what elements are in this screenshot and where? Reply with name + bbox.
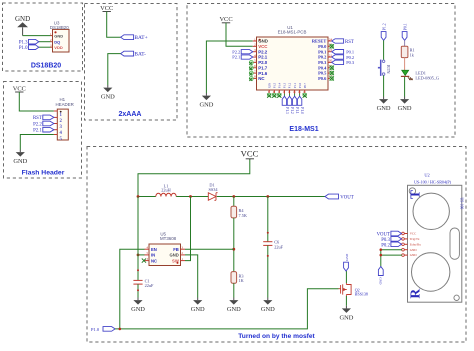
svg-text:P2.1: P2.1 xyxy=(258,55,268,60)
svg-text:15: 15 xyxy=(298,91,301,94)
svg-text:22uH: 22uH xyxy=(161,188,171,193)
svg-text:P0.2: P0.2 xyxy=(346,55,354,60)
svg-text:13: 13 xyxy=(288,91,291,94)
svg-text:U2: U2 xyxy=(424,173,429,178)
svg-text:GND: GND xyxy=(258,39,268,44)
svg-text:VCC: VCC xyxy=(241,149,259,159)
svg-text:1K: 1K xyxy=(239,278,245,283)
svg-text:P1.3: P1.3 xyxy=(283,82,287,88)
svg-text:EN: EN xyxy=(151,247,157,252)
svg-text:Echo/Rx: Echo/Rx xyxy=(410,242,422,246)
svg-text:DS18B20: DS18B20 xyxy=(50,25,69,30)
svg-text:P1.3: P1.3 xyxy=(285,107,289,114)
svg-text:P2.0: P2.0 xyxy=(258,60,268,65)
svg-text:P1.0: P1.0 xyxy=(298,82,302,88)
svg-text:E18-MS1: E18-MS1 xyxy=(289,126,318,133)
svg-text:GND: GND xyxy=(15,15,30,23)
svg-text:FB: FB xyxy=(173,247,179,252)
svg-text:P1.3: P1.3 xyxy=(19,41,28,46)
svg-text:P0.2: P0.2 xyxy=(318,55,326,60)
svg-text:GND: GND xyxy=(169,253,178,258)
svg-text:P0.1: P0.1 xyxy=(404,23,408,30)
svg-text:P1.1: P1.1 xyxy=(293,82,297,88)
svg-text:DQ: DQ xyxy=(54,39,60,44)
svg-text:R: R xyxy=(407,289,422,299)
svg-text:P2.2: P2.2 xyxy=(33,122,42,127)
svg-text:P0.3: P0.3 xyxy=(318,60,327,65)
svg-text:BSS138: BSS138 xyxy=(355,292,368,297)
svg-text:NC: NC xyxy=(151,258,157,263)
svg-text:1: 1 xyxy=(254,37,256,41)
svg-text:Turned on by the mosfet: Turned on by the mosfet xyxy=(238,333,315,340)
svg-text:5: 5 xyxy=(254,59,256,63)
svg-text:1k: 1k xyxy=(410,52,415,57)
svg-text:RESET: RESET xyxy=(312,39,326,44)
svg-text:BAT-: BAT- xyxy=(134,52,146,58)
svg-text:VOUT: VOUT xyxy=(340,196,353,201)
svg-text:4: 4 xyxy=(254,53,256,57)
svg-text:P0.1: P0.1 xyxy=(346,49,354,54)
svg-text:RST: RST xyxy=(345,40,354,45)
svg-text:P2.1: P2.1 xyxy=(232,55,240,60)
svg-text:P0.4: P0.4 xyxy=(318,65,327,70)
svg-text:P2.2: P2.2 xyxy=(232,49,240,54)
svg-text:2: 2 xyxy=(254,43,256,47)
svg-text:P0.2: P0.2 xyxy=(381,243,390,248)
svg-text:BTN: BTN xyxy=(386,65,391,75)
svg-text:2xAAA: 2xAAA xyxy=(119,111,142,118)
svg-text:6: 6 xyxy=(254,64,256,68)
svg-text:GND: GND xyxy=(410,253,418,257)
svg-text:VOUT: VOUT xyxy=(377,233,390,238)
svg-text:P1.7: P1.7 xyxy=(258,65,268,70)
svg-text:E18-MS1-PCB: E18-MS1-PCB xyxy=(278,30,307,35)
svg-text:NC: NC xyxy=(258,76,265,81)
svg-text:HEADER: HEADER xyxy=(56,102,74,107)
svg-text:P1.0: P1.0 xyxy=(19,46,28,51)
svg-text:GND: GND xyxy=(410,248,418,252)
svg-text:P1.0: P1.0 xyxy=(91,327,100,332)
svg-text:US-100: US-100 xyxy=(460,198,464,210)
svg-text:GND: GND xyxy=(378,277,382,285)
svg-text:P0.5: P0.5 xyxy=(318,71,327,76)
svg-text:22uF: 22uF xyxy=(274,244,283,249)
svg-text:P1.2: P1.2 xyxy=(290,107,294,114)
svg-text:P0.0: P0.0 xyxy=(318,44,327,49)
svg-text:VDD: VDD xyxy=(54,45,63,50)
svg-text:14: 14 xyxy=(293,91,296,94)
svg-text:P2.1: P2.1 xyxy=(33,129,42,134)
svg-text:P0.3: P0.3 xyxy=(381,238,390,243)
svg-text:Trig/Tx: Trig/Tx xyxy=(410,237,420,241)
svg-text:3: 3 xyxy=(254,48,256,52)
svg-text:P0.6: P0.6 xyxy=(318,76,327,81)
svg-text:Flash Header: Flash Header xyxy=(22,170,65,177)
svg-text:GND: GND xyxy=(345,253,349,261)
svg-text:P1.2: P1.2 xyxy=(288,82,292,88)
svg-text:P1.5: P1.5 xyxy=(273,82,277,88)
svg-text:IN: IN xyxy=(151,253,155,258)
svg-text:P2.2: P2.2 xyxy=(258,49,268,54)
svg-text:LED-0805_G: LED-0805_G xyxy=(415,76,439,81)
svg-text:US-100 / HC-SR04(P): US-100 / HC-SR04(P) xyxy=(414,179,452,184)
svg-text:MT3608: MT3608 xyxy=(160,236,177,241)
svg-text:P1.1: P1.1 xyxy=(295,107,299,114)
svg-text:VCC: VCC xyxy=(410,232,417,236)
svg-text:P0.7: P0.7 xyxy=(303,82,307,88)
svg-text:P0.1: P0.1 xyxy=(318,49,326,54)
svg-text:P1.6: P1.6 xyxy=(258,71,268,76)
svg-text:7.5K: 7.5K xyxy=(239,213,248,218)
svg-text:GND: GND xyxy=(54,33,63,38)
svg-text:DS18B20: DS18B20 xyxy=(31,63,61,70)
svg-text:22uF: 22uF xyxy=(145,283,154,288)
svg-text:P1.4: P1.4 xyxy=(278,82,282,88)
svg-text:12: 12 xyxy=(283,91,286,94)
svg-text:P1.2: P1.2 xyxy=(383,23,387,30)
svg-text:VCC: VCC xyxy=(258,44,268,49)
svg-text:BAT+: BAT+ xyxy=(134,35,147,41)
svg-text:7: 7 xyxy=(254,69,256,73)
svg-text:P0.3: P0.3 xyxy=(346,60,355,65)
svg-text:P1.0: P1.0 xyxy=(300,107,304,114)
svg-text:8: 8 xyxy=(254,75,256,79)
svg-text:SS34: SS34 xyxy=(208,187,218,192)
svg-text:RST: RST xyxy=(33,116,42,121)
svg-text:XIN: XIN xyxy=(267,82,271,88)
svg-text:T: T xyxy=(408,190,423,199)
